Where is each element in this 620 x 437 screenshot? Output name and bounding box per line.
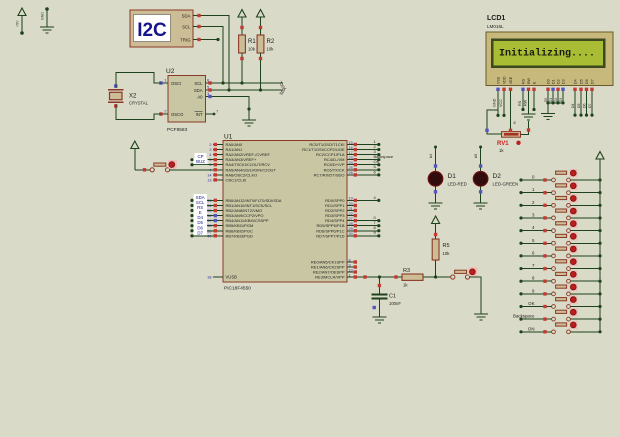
wire keypad ON to bus: [571, 330, 602, 333]
ground below LCD D0-D3: [541, 114, 555, 120]
wire keypad Backspace to bus: [571, 318, 602, 321]
svg-text:SDA: SDA: [194, 88, 203, 93]
svg-text:8: 8: [514, 121, 516, 125]
U1 pin 22 RD3/SPP3: [325, 212, 357, 218]
svg-text:21: 21: [349, 207, 353, 211]
U1 pin 6 RA4/T0CKI/C1OUT/RCV: [209, 162, 270, 167]
power arrow above R1: [238, 10, 246, 27]
svg-text:D0: D0: [546, 79, 550, 84]
U1 pin 2 RA0/AN0: [209, 142, 243, 147]
crystal X2: [108, 84, 149, 107]
power arrow keypad bus: [596, 152, 604, 181]
U1 pin 21 RD2/SPP2: [325, 207, 357, 213]
svg-text:RD7/SPP7/P1D: RD7/SPP7/P1D: [316, 233, 344, 238]
I2C debugger U3: [130, 10, 201, 47]
net label D7 on RB7: [190, 229, 213, 237]
svg-text:VUSB: VUSB: [226, 275, 238, 280]
ground below C1: [372, 317, 386, 323]
svg-text:17: 17: [349, 151, 353, 155]
svg-text:b4: b4: [429, 154, 433, 158]
svg-text:D4: D4: [571, 103, 575, 108]
keypad button 2: [519, 194, 577, 207]
U1 pin 35 RB2/AN8/INT2/VMO: [207, 208, 262, 213]
net label above D1: [429, 154, 433, 158]
LCD pin VSS: [496, 76, 500, 91]
svg-text:3: 3: [209, 148, 211, 152]
svg-text:D1: D1: [551, 79, 555, 84]
svg-text:b5: b5: [474, 154, 478, 158]
wire net 6 from U1: [357, 169, 380, 176]
wire X2 to U2 OSCI: [116, 72, 162, 88]
U1 pin 25 RC6/TX/CK: [324, 166, 357, 172]
wire LCD D4: [571, 91, 577, 117]
U1 pin 34 RB1/AN10/INT1/SCK/SCL: [207, 203, 273, 208]
svg-text:23: 23: [349, 156, 353, 160]
svg-text:ON: ON: [528, 326, 535, 331]
wire keypad 0 to bus: [571, 178, 602, 181]
U1 pin 1 RE3/MCLR/VPP: [315, 273, 357, 279]
svg-text:OSC1/CLKI: OSC1/CLKI: [226, 177, 247, 182]
svg-text:10k: 10k: [267, 47, 275, 52]
svg-text:RV1: RV1: [497, 141, 509, 147]
wire SCL bus: [212, 81, 283, 84]
wire keypad 9 to bus: [571, 292, 602, 295]
wire keypad 1 to bus: [571, 191, 602, 194]
svg-text:CRYSTAL: CRYSTAL: [129, 101, 149, 106]
wire net 2 from U1: [357, 144, 380, 151]
U1 pin 3 RA1/AN1: [209, 147, 243, 152]
LCD pin D2: [556, 79, 560, 91]
U1 pin 15 RC0/T1OSO/T1CKI: [309, 141, 357, 147]
svg-text:16: 16: [349, 146, 353, 150]
resistor R5 10k: [432, 233, 450, 260]
keypad button 6: [519, 245, 577, 258]
svg-text:VDD: VDD: [502, 76, 506, 84]
svg-text:INT: INT: [196, 112, 203, 117]
U1 pin 38 RB5/KBI1/PGM: [207, 223, 253, 228]
LCD pin D4: [573, 79, 577, 91]
wire button to U1 RA5: [170, 169, 213, 171]
keypad button 7: [519, 258, 577, 271]
net label RS on RB2: [190, 204, 213, 212]
push button reset: [451, 267, 478, 279]
svg-text:SCL: SCL: [182, 24, 191, 29]
wire net 7 from U1: [357, 220, 380, 227]
svg-text:D5: D5: [577, 103, 581, 108]
net label SDA SCL rotated: [277, 79, 287, 96]
svg-text:RW: RW: [527, 77, 531, 84]
svg-text:GND: GND: [41, 12, 45, 20]
LCD pin RS: [521, 78, 525, 91]
U2 pin 5 SDA: [206, 85, 213, 92]
net label CP on RA3: [190, 153, 213, 161]
svg-text:D7: D7: [588, 103, 592, 108]
svg-text:29: 29: [349, 227, 353, 231]
resistor R1 10k: [239, 26, 257, 60]
wire R1 to SCL bus: [241, 60, 243, 83]
wire I2C SCL to bus: [201, 27, 223, 84]
svg-text:TRIG: TRIG: [180, 37, 191, 42]
wire R5 to MCLR row: [435, 260, 437, 277]
svg-text:D0: D0: [544, 98, 548, 102]
U1 pin 20 RD1/SPP1: [325, 202, 357, 208]
svg-text:13: 13: [207, 178, 211, 182]
svg-text:24: 24: [349, 161, 353, 165]
wire VSS branch to RV1: [485, 110, 501, 134]
keypad button 5: [519, 232, 577, 245]
svg-text:RE3/MCLR/VPP: RE3/MCLR/VPP: [315, 275, 345, 280]
svg-text:VEE: VEE: [509, 76, 513, 84]
svg-text:LCD1: LCD1: [487, 15, 505, 22]
svg-text:SCL: SCL: [194, 81, 203, 86]
svg-text:10k: 10k: [248, 47, 256, 52]
svg-text:D3: D3: [559, 98, 563, 102]
wire I2C SDA to bus: [201, 16, 229, 91]
wire MCLR row: [357, 275, 453, 278]
LCD pin D0: [546, 79, 550, 91]
LCD pin E: [532, 81, 536, 91]
ground below U2 A0: [242, 120, 256, 126]
wire keypad 8 to bus: [571, 280, 602, 283]
U1 pin 24 RC5/D+/VP: [324, 161, 357, 167]
U2 pin 6 SCL: [206, 78, 213, 85]
svg-text:2: 2: [209, 143, 211, 147]
wire keypad 2 to bus: [571, 204, 602, 207]
svg-text:4: 4: [209, 153, 211, 157]
keypad button Backspace: [513, 308, 578, 321]
capacitor C1 100nF: [372, 277, 402, 317]
preset RV1 1k: [497, 129, 521, 153]
svg-text:D3: D3: [561, 79, 565, 84]
U2 pin 3 A0: [206, 91, 213, 98]
wire LCD D6: [582, 91, 588, 117]
svg-text:10: 10: [349, 268, 353, 272]
U1 pin 7 RA5/AN4/SS/LVDIN/C2OUT: [209, 167, 276, 172]
svg-text:Backspace: Backspace: [513, 314, 535, 319]
U2 pin 2 OSCO: [159, 109, 168, 116]
LED D1 LED-RED: [428, 146, 467, 204]
svg-text:8: 8: [349, 258, 351, 262]
net label BUZ on RA4: [190, 158, 213, 166]
wire keypad 5 to bus: [571, 242, 602, 245]
wire LCD D5: [577, 91, 583, 117]
wire net 4 from U1: [357, 195, 380, 202]
svg-text:1: 1: [349, 273, 351, 277]
U1 pin 29 RD6/SPP6/P1C: [316, 227, 357, 233]
power arrow above R5: [432, 216, 440, 233]
svg-text:26: 26: [349, 171, 353, 175]
wire LCD RW to ground: [524, 91, 529, 114]
svg-text:PCF8583: PCF8583: [167, 127, 188, 133]
svg-text:OSCI: OSCI: [171, 81, 181, 86]
svg-text:30: 30: [349, 232, 353, 236]
LCD pin RW: [527, 77, 531, 91]
wire net 0 from U1: [357, 215, 380, 222]
U1 pin 40 RB7/KBI3/PGD: [207, 233, 253, 238]
svg-text:15: 15: [349, 141, 353, 145]
U1 pin 16 RC1/T1OSI/CCP2/UOE: [302, 146, 357, 152]
wire LCD E: [532, 91, 535, 111]
svg-text:U1: U1: [224, 134, 233, 141]
net label D6 on RB6: [190, 224, 213, 232]
LCD pin D5: [579, 79, 583, 91]
net label SCL on RB1: [190, 199, 213, 207]
svg-text:25: 25: [349, 166, 353, 170]
svg-text:R1: R1: [248, 39, 256, 45]
wire X2 to U2 OSCO: [116, 104, 162, 120]
svg-text:D2: D2: [554, 98, 558, 102]
svg-text:10k: 10k: [443, 251, 451, 256]
LED D2 LED-GREEN: [473, 146, 518, 204]
svg-text:14: 14: [207, 173, 211, 177]
U1 pin 26 RC7/RX/DT/SDO: [314, 171, 357, 177]
ground symbol top-left: [40, 7, 54, 33]
svg-text:RS: RS: [521, 78, 525, 84]
svg-text:I2C: I2C: [137, 20, 167, 41]
wire net OK from U1: [357, 159, 380, 166]
LCD pin VDD: [502, 76, 506, 91]
svg-text:OSCO: OSCO: [171, 112, 184, 117]
svg-text:28: 28: [349, 222, 353, 226]
LCD pin D6: [585, 79, 589, 91]
U1 pin 27 RD4/SPP4: [325, 217, 357, 223]
wire net Backspace from U1: [357, 154, 394, 161]
svg-text:RC7/RX/DT/SDO: RC7/RX/DT/SDO: [314, 172, 345, 177]
svg-text:LM016L: LM016L: [487, 24, 504, 29]
net label SDA on RB0: [190, 194, 213, 202]
net label D4 on RB4: [190, 214, 213, 222]
U2 pin 1 OSCI: [159, 78, 168, 85]
wire LCD VSS: [493, 91, 500, 117]
wire SDA bus: [212, 88, 283, 91]
svg-text:20: 20: [349, 202, 353, 206]
svg-text:RW: RW: [524, 99, 528, 106]
svg-text:D1: D1: [549, 98, 553, 102]
wire net 5 from U1: [357, 164, 380, 171]
U1 pin 39 RB6/KBI2/PGC: [207, 228, 253, 233]
U2 pin 7 INT: [206, 109, 220, 116]
microcontroller U1 PIC18F4550 body: [223, 134, 347, 292]
push button on RA5: [150, 160, 177, 172]
ground below D2: [474, 203, 488, 209]
keypad button 3: [519, 207, 577, 220]
U1 pin 14 RA6/OSC2/CLKO: [207, 172, 257, 177]
U1 pin 10 RE2/AN7/OESPP: [313, 268, 357, 274]
wire keypad 4 to bus: [571, 229, 602, 232]
power arrow above button: [131, 141, 139, 170]
wire LCD VDD: [499, 91, 506, 117]
keypad button 9: [519, 283, 577, 296]
svg-text:D5: D5: [579, 79, 583, 84]
LCD pin D1: [551, 79, 555, 91]
svg-text:D7: D7: [197, 230, 203, 235]
keypad button 0: [519, 169, 577, 182]
wire net 1 from U1: [357, 139, 380, 146]
keypad button 4: [519, 220, 577, 233]
svg-text:D6: D6: [585, 79, 589, 84]
svg-text:R2: R2: [267, 39, 275, 45]
U1 pin 5 RA3/AN3/VREF+: [209, 157, 257, 162]
svg-text:D4: D4: [573, 79, 577, 84]
wire keypad 3 to bus: [571, 216, 602, 219]
net label D5 on RB5: [190, 219, 213, 227]
svg-text:LED-GREEN: LED-GREEN: [493, 181, 519, 186]
U1 pin 33 RB0/AN12/INT0/FLT0/SDI/SDA: [207, 198, 282, 203]
LCD pin D7: [590, 79, 594, 91]
ground below reset button: [474, 314, 488, 320]
U1 pin 17 RC2/CCP1/P1A: [316, 151, 357, 157]
U1 pin 37 RB4/AN11/KBI0/CSSPP: [207, 218, 269, 223]
wire keypad 6 to bus: [571, 254, 602, 257]
keypad button 8: [519, 270, 577, 283]
svg-text:R5: R5: [443, 243, 450, 249]
svg-text:RS: RS: [518, 100, 522, 106]
wire net 9 from U1: [357, 230, 380, 237]
LCD pin VEE: [509, 76, 513, 91]
svg-text:D2: D2: [493, 173, 502, 180]
LCD pin D3: [561, 79, 565, 91]
wire U2 A0 to ground: [212, 97, 251, 121]
wire keypad OK to bus: [571, 305, 602, 308]
svg-text:VCC: VCC: [499, 99, 503, 107]
svg-text:D1: D1: [448, 173, 457, 180]
power arrow above R2: [257, 10, 265, 27]
svg-text:RB7/KBI3/PGD: RB7/KBI3/PGD: [226, 233, 253, 238]
wire net 3 from U1: [357, 149, 380, 156]
resistor R3 1k: [402, 268, 423, 288]
wire I2C TRIG stub: [201, 38, 220, 41]
wire power to button: [135, 168, 150, 171]
svg-text:C1: C1: [389, 294, 396, 300]
svg-text:D7: D7: [590, 79, 594, 84]
svg-text:100nF: 100nF: [389, 301, 401, 306]
wire RV1 right terminal: [521, 121, 531, 134]
wire LCD RS: [518, 91, 525, 111]
keypad button ON: [519, 321, 577, 334]
power +5V symbol top-left: [16, 8, 27, 35]
LCD LCD1 LM016L: [486, 15, 613, 86]
svg-text:BUZ: BUZ: [196, 159, 205, 164]
ground below D1: [429, 203, 443, 209]
wire net 8 from U1: [357, 225, 380, 232]
svg-text:+5V: +5V: [16, 20, 20, 27]
wire R2 to SDA bus: [260, 60, 262, 90]
svg-text:SDA: SDA: [182, 13, 191, 18]
svg-text:27: 27: [349, 217, 353, 221]
U1 pin 9 RE1/AN6/CK2SPP: [311, 263, 357, 269]
U1 pin 23 RC4/D-/VM: [324, 156, 357, 162]
svg-text:18: 18: [207, 275, 212, 280]
svg-text:D6: D6: [582, 103, 586, 108]
ground below LCD RW: [522, 114, 536, 120]
U1 pin 19 RD0/SPP0: [325, 197, 357, 203]
U1 pin 30 RD7/SPP7/P1D: [316, 232, 357, 238]
svg-text:R3: R3: [403, 268, 410, 274]
svg-text:VSS: VSS: [496, 76, 500, 84]
svg-text:OK: OK: [528, 301, 534, 306]
svg-text:D2: D2: [556, 79, 560, 84]
wire keypad 7 to bus: [571, 267, 602, 270]
net label E on RB3: [190, 209, 213, 217]
svg-text:A0: A0: [197, 95, 203, 100]
svg-text:PIC18F4550: PIC18F4550: [224, 286, 251, 292]
wire reset button to ground: [470, 277, 481, 314]
U1 pin 13 OSC1/CLKI: [207, 177, 246, 182]
keypad button OK: [519, 296, 577, 309]
wire LCD D7: [588, 91, 594, 117]
resistor R2 10k: [257, 26, 275, 60]
wires LCD D0-D3 to ground: [544, 91, 565, 114]
U1 pin 18 VUSB: [207, 275, 237, 280]
keypad bus wire right: [599, 180, 601, 332]
svg-text:9: 9: [349, 263, 351, 267]
svg-text:22: 22: [349, 212, 353, 216]
U1 pin 28 RD5/SPP5/P1B: [316, 222, 357, 228]
svg-text:Initializing....: Initializing....: [499, 48, 595, 60]
svg-text:GND: GND: [493, 98, 497, 107]
svg-text:19: 19: [349, 197, 353, 201]
RTC U2 PCF8583: [166, 68, 206, 133]
svg-text:X2: X2: [129, 94, 137, 100]
wire LCD VEE to RV1 wiper: [511, 91, 516, 130]
U1 pin 36 RB3/AN9/CCP2/VPO: [207, 213, 263, 218]
U1 pin 4 RA2/AN2/VREF-/CVREF: [209, 152, 270, 157]
net label above D2: [474, 154, 478, 158]
svg-text:LED-RED: LED-RED: [448, 181, 467, 186]
svg-text:U2: U2: [166, 68, 175, 75]
keypad button 1: [519, 182, 577, 195]
U1 pin 8 RE0/AN5/CK1SPP: [311, 258, 357, 264]
